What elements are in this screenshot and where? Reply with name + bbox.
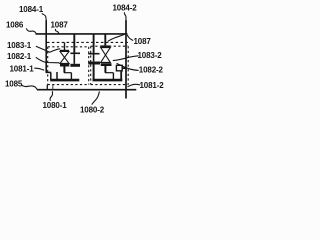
svg-text:1084-1: 1084-1 bbox=[19, 5, 44, 14]
svg-text:1082-1: 1082-1 bbox=[7, 52, 32, 61]
svg-text:1087: 1087 bbox=[51, 21, 69, 30]
svg-text:1080-1: 1080-1 bbox=[43, 101, 68, 110]
svg-text:1084-2: 1084-2 bbox=[113, 3, 138, 12]
svg-text:1081-2: 1081-2 bbox=[140, 81, 165, 90]
svg-text:1083-1: 1083-1 bbox=[7, 41, 32, 50]
svg-text:1086: 1086 bbox=[6, 20, 24, 29]
svg-text:1085: 1085 bbox=[5, 79, 23, 88]
svg-text:1080-2: 1080-2 bbox=[80, 105, 105, 114]
svg-text:1087: 1087 bbox=[134, 37, 152, 46]
svg-text:1082-2: 1082-2 bbox=[139, 66, 164, 75]
svg-text:1081-1: 1081-1 bbox=[10, 64, 35, 73]
svg-text:1083-2: 1083-2 bbox=[138, 51, 163, 60]
